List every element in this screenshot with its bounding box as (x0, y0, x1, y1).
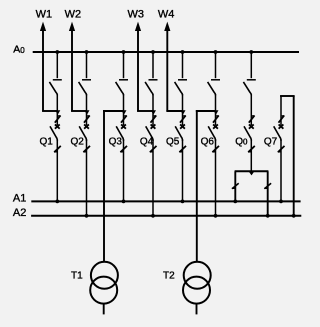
transformer T2 bottom lead (196, 304, 198, 314)
transformer T1 bottom lead (103, 304, 105, 314)
plug contact upper Q5 (180, 116, 186, 123)
node Q7 on busbar A1 (279, 200, 283, 204)
wire Q6 below disconnector (215, 94, 217, 125)
svg-text:Q1: Q1 (40, 136, 54, 147)
disconnector Q4 blade (145, 82, 153, 95)
wire T2 to Q6 (196, 110, 216, 112)
plug contact lower Q0 (248, 146, 255, 152)
plug contact cross Q0 (249, 124, 254, 128)
plug contact cross Q2 (84, 124, 89, 128)
transformer T1 primary winding (91, 262, 118, 289)
bridge bar (235, 170, 269, 172)
node Q1 on busbar A1 (55, 200, 59, 204)
node Q2 on busbar A2 (85, 214, 89, 218)
node Q5 on busbar A1 (181, 200, 185, 204)
disconnector Q5 blade (175, 82, 183, 95)
junction arrow at Q6 (213, 110, 218, 114)
wire Q4 below disconnector (152, 94, 154, 125)
wire Q1 below disconnector (56, 94, 58, 125)
node Q0 on busbar A0 (249, 50, 253, 54)
plug contact cross Q1 (55, 124, 60, 128)
breaker Q2 blade (79, 126, 86, 141)
disconnector Q4 fixed contact tick (149, 79, 158, 81)
disconnector Q3 fixed contact tick (119, 79, 128, 81)
bus-tie riser wire (293, 96, 295, 216)
disconnector Q5 fixed contact tick (178, 79, 187, 81)
breaker Q1 blade (50, 126, 57, 141)
junction arrow at Q5 (180, 110, 185, 114)
disconnector Q5 upper stub (182, 52, 184, 78)
plug contact cross Q4 (151, 124, 156, 128)
plug contact upper Q2 (84, 116, 90, 123)
wire Q0 to bridge (250, 140, 252, 172)
disconnector Q0 upper stub (250, 52, 252, 78)
plug contact cross Q5 (180, 124, 185, 128)
feeder arrow W3 (135, 22, 141, 31)
svg-text:T1: T1 (71, 270, 83, 281)
wire Q4 to busbar A2 (152, 140, 154, 216)
svg-text:A1: A1 (13, 193, 26, 205)
node Q3 on busbar A0 (122, 50, 126, 54)
breaker Q7 blade (274, 126, 281, 141)
wire W1 to Q1 (42, 110, 57, 112)
disconnector Q1 blade (49, 82, 57, 95)
feeder wire W1 (42, 29, 44, 111)
bridge left leg wire (234, 171, 236, 201)
disconnector Q0 fixed contact tick (247, 79, 256, 81)
node Q3 on busbar A1 (122, 200, 126, 204)
wire Q3 to busbar A1 (123, 140, 125, 202)
disconnector Q4 upper stub (152, 52, 154, 78)
junction arrow at Q3 (121, 110, 126, 114)
plug contact upper Q3 (121, 116, 127, 123)
busbar A0 (33, 51, 299, 53)
node Q6 on busbar A2 (214, 214, 218, 218)
wire W4 to Q5 (166, 110, 182, 112)
svg-text:Q3: Q3 (109, 136, 123, 147)
disconnector Q6 blade (208, 82, 216, 95)
disconnector Q6 fixed contact tick (211, 79, 220, 81)
plug contact upper Q4 (151, 116, 157, 123)
disconnector Q2 fixed contact tick (82, 79, 91, 81)
wire W3 to Q4 (137, 110, 153, 112)
breaker Q4 blade (146, 126, 153, 141)
breaker Q0 blade (244, 126, 251, 141)
feeder wire W2 (71, 29, 73, 111)
transformer T2 primary winding (184, 262, 211, 289)
plug contact upper Q1 (55, 116, 61, 123)
node Q5 on busbar A0 (181, 50, 185, 54)
bridge right leg wire (267, 171, 269, 216)
svg-text:Q5: Q5 (166, 136, 180, 147)
svg-text:Q6: Q6 (201, 136, 215, 147)
disconnector Q3 upper stub (123, 52, 125, 78)
wire Q2 below disconnector (86, 94, 88, 125)
feeder wire W3 (137, 29, 139, 111)
svg-text:Q7: Q7 (264, 136, 278, 147)
feeder wire W4 (166, 29, 168, 111)
node Q6 on busbar A0 (214, 50, 218, 54)
feeder arrow W1 (40, 22, 46, 31)
svg-text:W2: W2 (65, 9, 82, 21)
wire Q7 upper (280, 96, 282, 125)
plug contact cross Q7 (279, 124, 284, 128)
busbar A2 (31, 215, 301, 217)
svg-text:T2: T2 (163, 270, 175, 281)
plug contact lower Q5 (179, 146, 186, 152)
plug contact upper Q0 (249, 116, 255, 123)
disconnector Q1 fixed contact tick (53, 79, 62, 81)
plug contact upper Q6 (213, 116, 219, 123)
node Q4 on busbar A2 (151, 214, 155, 218)
wire Q2 to busbar A2 (86, 140, 88, 216)
wire Q1 to busbar A1 (56, 140, 58, 202)
junction arrow Q0 on bridge (249, 172, 254, 176)
wire T1 vertical (103, 110, 105, 261)
wire Q7 to busbar A1 (280, 140, 282, 202)
wire T1 to Q3 (103, 110, 123, 112)
disconnector Q2 upper stub (86, 52, 88, 78)
wire T2 vertical (196, 110, 198, 261)
svg-text:Q4: Q4 (140, 136, 154, 147)
node riser on busbar A2 (292, 214, 296, 218)
feeder arrow W2 (69, 22, 75, 31)
switch on right leg (264, 183, 271, 189)
junction arrow at Q2 (84, 110, 89, 114)
disconnector Q1 upper stub (56, 52, 58, 78)
busbar A1 (31, 200, 300, 202)
node Q1 on busbar A0 (55, 50, 59, 54)
feeder arrow W4 (164, 22, 170, 31)
plug contact lower Q3 (120, 146, 127, 152)
breaker Q6 blade (208, 126, 215, 141)
wire Q3 below disconnector (123, 94, 125, 125)
breaker Q3 blade (116, 126, 123, 141)
plug contact cross Q3 (121, 124, 126, 128)
svg-text:W4: W4 (158, 9, 175, 21)
wire Q5 to busbar A1 (182, 140, 184, 202)
svg-text:A2: A2 (13, 207, 26, 219)
switch on left leg (232, 183, 239, 189)
plug contact lower Q4 (150, 146, 157, 152)
node left leg on busbar A1 (233, 200, 237, 204)
plug contact cross Q6 (213, 124, 218, 128)
svg-text:W3: W3 (128, 9, 145, 21)
wire Q5 below disconnector (182, 94, 184, 125)
svg-text:W1: W1 (36, 9, 53, 21)
svg-text:A0: A0 (13, 44, 25, 56)
disconnector Q3 blade (116, 82, 124, 95)
plug contact lower Q2 (83, 146, 90, 152)
disconnector Q6 upper stub (215, 52, 217, 78)
transformer T1 secondary winding (90, 277, 117, 304)
breaker Q5 blade (175, 126, 182, 141)
wire W2 to Q2 (71, 110, 86, 112)
svg-text:Q2: Q2 (71, 136, 85, 147)
junction arrow at Q4 (151, 110, 156, 114)
node right leg on busbar A2 (266, 214, 270, 218)
transformer T2 secondary winding (183, 277, 210, 304)
plug contact lower Q6 (212, 146, 219, 152)
plug contact upper Q7 (279, 116, 285, 123)
node Q2 on busbar A0 (85, 50, 89, 54)
svg-text:Q0: Q0 (235, 136, 248, 147)
wire Q0 below disconnector (250, 94, 252, 125)
plug contact lower Q7 (278, 146, 285, 152)
disconnector Q0 blade (243, 82, 251, 95)
bus-tie top bar (280, 95, 295, 97)
plug contact lower Q1 (54, 146, 61, 152)
wire Q6 to busbar A2 (215, 140, 217, 216)
disconnector Q2 blade (79, 82, 87, 95)
node Q4 on busbar A0 (151, 50, 155, 54)
junction arrow at Q1 (55, 110, 60, 114)
